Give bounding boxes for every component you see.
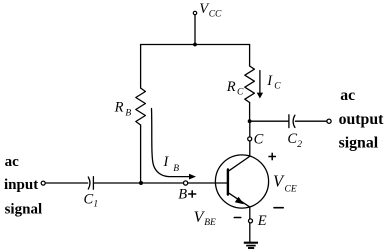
svg-text:B: B (178, 187, 187, 203)
svg-text:C: C (287, 131, 297, 147)
minus sign VCE bottom (274, 207, 283, 209)
svg-text:CE: CE (285, 184, 297, 194)
wire top rail (141, 44, 250, 46)
transistor Q1 emitter arrow (235, 197, 244, 205)
capacitor C1 (88, 177, 93, 190)
wire junction to base (141, 182, 228, 184)
node B terminal (184, 181, 188, 185)
node input terminal (41, 181, 45, 185)
wire collector vertical (249, 121, 251, 156)
minus sign VBE bottom (234, 217, 241, 219)
svg-text:B: B (173, 164, 179, 174)
power terminal VCC (193, 11, 196, 14)
svg-text:2: 2 (297, 140, 302, 150)
svg-text:ac: ac (5, 154, 20, 170)
node E terminal (249, 219, 253, 223)
svg-text:C: C (274, 82, 281, 92)
wire right branch upper (249, 45, 251, 67)
wire left branch upper (140, 45, 142, 89)
transistor Q1 emitter lead (229, 193, 250, 207)
current arrow IB (152, 109, 190, 177)
wire right branch lower (249, 103, 251, 122)
junction collector node (248, 119, 252, 123)
svg-text:C: C (84, 191, 94, 207)
transistor Q1 collector lead (229, 156, 250, 170)
capacitor C2 (289, 115, 295, 128)
node C terminal (248, 137, 252, 141)
label plus VCE top (268, 153, 276, 160)
svg-text:input: input (4, 177, 38, 193)
svg-text:1: 1 (93, 199, 98, 209)
svg-text:output: output (339, 111, 385, 128)
svg-text:R: R (226, 79, 236, 95)
wire VCC stem (194, 15, 196, 45)
svg-text:ac: ac (340, 87, 355, 104)
resistor RB (136, 88, 146, 125)
wire input to C1 (46, 182, 88, 184)
wire C2 to output (295, 120, 326, 122)
svg-text:C: C (254, 132, 264, 148)
wire C1 to base junction (94, 182, 141, 184)
junction base node (139, 181, 143, 185)
svg-text:B: B (125, 109, 131, 119)
svg-text:E: E (257, 213, 267, 229)
svg-text:signal: signal (339, 134, 379, 151)
transistor Q1 circle (215, 155, 268, 208)
ground (244, 242, 258, 244)
wire collector to C2 (250, 120, 289, 122)
svg-text:R: R (114, 100, 124, 116)
svg-text:CC: CC (209, 9, 222, 19)
svg-text:signal: signal (5, 201, 43, 217)
node output terminal (327, 119, 331, 123)
junction VCC node (193, 43, 197, 47)
svg-text:BE: BE (204, 218, 216, 228)
resistor RC (245, 66, 255, 103)
svg-text:C: C (237, 88, 244, 98)
current arrow IC (259, 71, 261, 94)
wire emitter vertical (249, 207, 251, 242)
transistor Q1 base bar (227, 169, 229, 194)
wire left branch lower (140, 125, 142, 183)
